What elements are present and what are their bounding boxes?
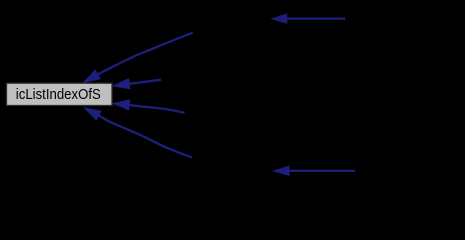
arrow edge D (call from bottom middle node) [85,108,192,157]
arrow edge A (call from top middle node) [84,33,193,83]
arrow edge C (call from middle node, lower) [113,100,184,113]
svg-text:icListIndexOfS: icListIndexOfS [16,86,101,103]
arrow edge G (bottom right horizontal call) [274,166,356,175]
node box icListIndexOfS (highlighted function node) [7,83,113,105]
arrow edge F (top right horizontal call) [272,14,345,23]
arrow edge B (call from middle node, upper) [113,79,161,89]
